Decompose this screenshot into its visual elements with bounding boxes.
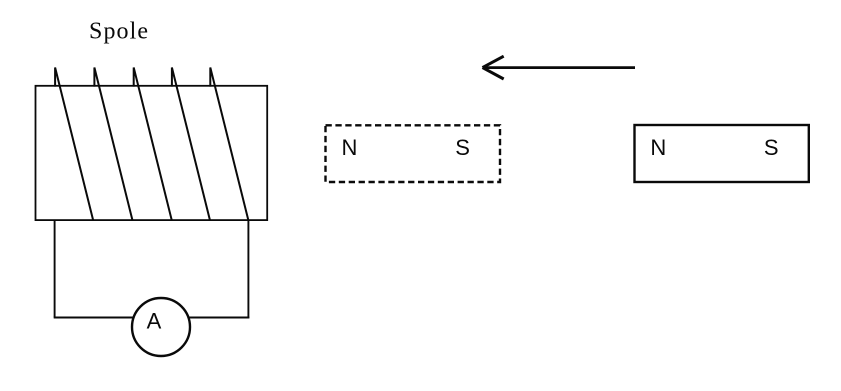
svg-text:Spole: Spole (89, 19, 149, 45)
coil winding 3 (134, 68, 172, 221)
wire right vertical (247, 220, 249, 318)
coil winding 4 (172, 68, 210, 221)
magnet ghost position (dashed rectangle) (326, 125, 501, 182)
svg-text:S: S (455, 135, 470, 160)
coil L1 body (rectangle) (36, 86, 268, 220)
coil winding 1 (55, 68, 93, 221)
coil winding 5 (210, 68, 248, 221)
svg-text:A: A (147, 309, 162, 334)
coil winding 2 (94, 68, 132, 221)
wire bottom-right horizontal (186, 317, 249, 319)
magnet (solid rectangle) (635, 125, 809, 182)
wire bottom-left horizontal (54, 317, 136, 319)
svg-text:N: N (342, 135, 358, 160)
arrow (magnet motion, pointing left) (483, 56, 636, 79)
svg-text:S: S (764, 135, 779, 160)
ammeter U1 circle (132, 298, 190, 356)
wire left vertical (54, 220, 56, 318)
svg-text:N: N (650, 135, 666, 160)
